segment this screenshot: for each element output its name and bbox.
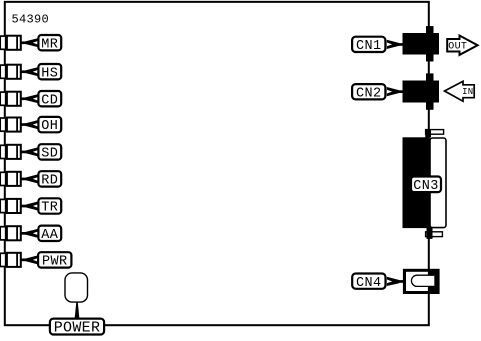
connector CN1 (RJ jack, line out) — [403, 26, 440, 61]
label PWR — [26, 252, 72, 269]
label MR — [26, 35, 61, 52]
wire stub from LED OH — [21, 123, 27, 126]
connector CN4 (power jack) — [403, 269, 440, 294]
connector CN3 (DB-25) — [403, 129, 447, 239]
wire stub from LED CD — [21, 97, 27, 100]
wire stub to CN2 — [397, 90, 404, 93]
label RD — [26, 171, 61, 188]
power switch component — [65, 273, 88, 302]
LED indicator TR — [0, 199, 21, 214]
svg-text:OUT: OUT — [448, 42, 467, 53]
LED indicator CD — [0, 91, 21, 106]
label CN4 — [352, 274, 399, 291]
label AA — [26, 226, 61, 243]
svg-text:MR: MR — [41, 37, 58, 52]
wire stub from LED PWR — [21, 259, 27, 262]
label SD — [26, 144, 61, 161]
label CN2 — [352, 84, 399, 101]
label POWER — [50, 319, 104, 337]
label CN3 — [411, 177, 441, 195]
LED indicator AA — [0, 226, 21, 241]
wire stub from LED TR — [21, 205, 27, 208]
wire stub to CN1 — [397, 43, 404, 46]
label CN1 — [352, 37, 399, 54]
arrow IN — [445, 81, 475, 101]
wire stub from LED SD — [21, 151, 27, 154]
svg-text:POWER: POWER — [54, 319, 101, 336]
label HS — [26, 64, 61, 81]
svg-text:54390: 54390 — [12, 13, 50, 27]
label TR — [26, 198, 61, 215]
wire stub to CN4 — [397, 280, 404, 283]
LED indicator HS — [0, 64, 21, 79]
svg-text:CN4: CN4 — [356, 276, 382, 291]
wire stub from LED MR — [21, 41, 27, 44]
svg-text:TR: TR — [41, 201, 58, 216]
LED indicator OH — [0, 117, 21, 132]
wire stub from LED AA — [21, 232, 27, 235]
svg-text:PWR: PWR — [42, 255, 68, 270]
LED indicator SD — [0, 144, 21, 159]
svg-text:AA: AA — [41, 228, 59, 243]
svg-text:RD: RD — [41, 174, 58, 189]
svg-text:HS: HS — [41, 66, 58, 81]
label OH — [26, 117, 61, 134]
wire stub from LED HS — [21, 70, 27, 73]
svg-text:CN3: CN3 — [413, 179, 439, 194]
arrow OUT — [447, 36, 477, 55]
LED indicator MR — [0, 35, 21, 50]
svg-text:CN2: CN2 — [356, 86, 382, 101]
svg-text:IN: IN — [462, 87, 473, 97]
svg-text:SD: SD — [41, 147, 58, 162]
svg-text:CD: CD — [41, 93, 58, 108]
label CD — [26, 91, 61, 108]
LED indicator RD — [0, 171, 21, 186]
connector CN2 (RJ jack, line in) — [403, 73, 440, 109]
wire stub from LED RD — [21, 178, 27, 181]
svg-text:CN1: CN1 — [356, 39, 382, 54]
pointer wedge to POWER label — [75, 302, 80, 318]
LED indicator PWR — [0, 252, 21, 267]
svg-text:OH: OH — [41, 119, 58, 134]
